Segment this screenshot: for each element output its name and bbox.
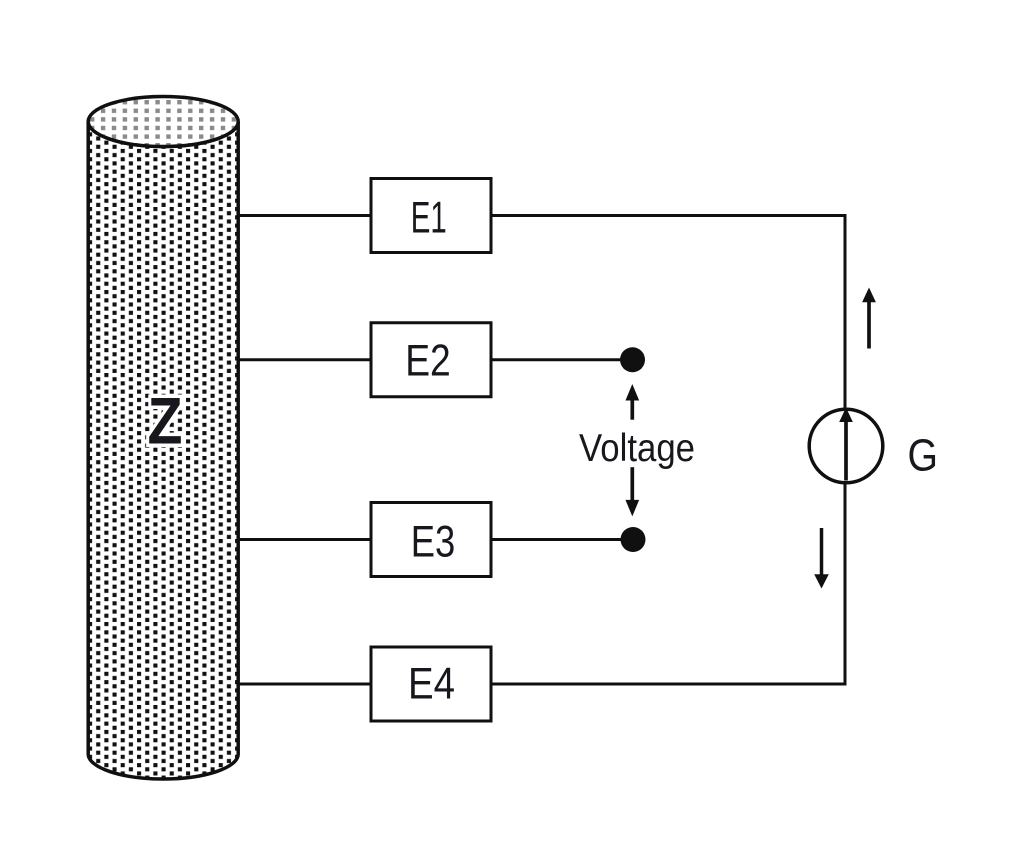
current source internal arrow [844, 420, 848, 481]
wire cylinder to E4 [238, 683, 371, 686]
specimen cylinder body (impedance Z) [88, 122, 238, 780]
voltage node dot (bottom, at E3) [621, 527, 646, 552]
electrode box E4 [371, 647, 491, 721]
cylinder top ellipse [88, 97, 238, 147]
wire cylinder to E1 [238, 214, 371, 217]
wire E3 to voltage node [491, 538, 633, 541]
electrode box E3 [371, 503, 491, 577]
electrode box E1 [371, 179, 491, 253]
current source circle G [809, 409, 883, 483]
wire loop E1 right, down right side, back to E4 [491, 216, 845, 685]
wire E2 to voltage node [491, 358, 633, 361]
wire cylinder to E2 [238, 358, 371, 361]
voltage node dot (top, at E2) [620, 347, 645, 372]
current direction up arrow (right branch) [867, 300, 871, 349]
svg-text:E3: E3 [411, 518, 456, 567]
svg-text:E2: E2 [405, 337, 451, 386]
svg-text:E4: E4 [408, 660, 455, 709]
svg-text:Voltage: Voltage [579, 427, 695, 470]
voltage up arrow [630, 399, 634, 420]
svg-text:G: G [908, 429, 939, 480]
wire cylinder to E3 [238, 538, 371, 541]
voltage down arrow [630, 467, 634, 501]
electrode box E2 [371, 323, 491, 397]
svg-text:Z: Z [148, 384, 183, 458]
svg-text:E1: E1 [411, 193, 447, 242]
current direction down arrow (right branch) [820, 528, 824, 576]
